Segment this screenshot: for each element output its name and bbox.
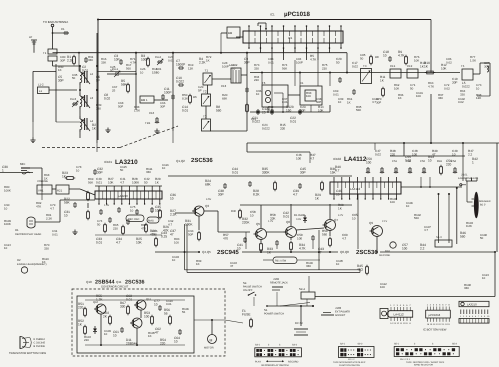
- svg-text:0.02: 0.02: [405, 158, 411, 162]
- svg-text:1: 1: [2, 168, 4, 172]
- svg-text:10: 10: [4, 206, 8, 210]
- svg-text:30P: 30P: [60, 58, 65, 62]
- svg-text:330: 330: [44, 246, 49, 250]
- svg-text:100: 100: [297, 236, 302, 240]
- svg-text:IC101: IC101: [104, 160, 112, 164]
- svg-text:50: 50: [480, 236, 484, 240]
- svg-text:10: 10: [482, 276, 486, 280]
- svg-text:10K: 10K: [394, 86, 399, 90]
- svg-text:B 2SC536: B 2SC536: [34, 345, 46, 348]
- svg-text:SILICONE: SILICONE: [379, 254, 391, 257]
- svg-text:68K: 68K: [222, 96, 227, 100]
- svg-text:560: 560: [460, 234, 466, 238]
- svg-text:EARPHONE JACK: EARPHONE JACK: [458, 177, 479, 180]
- svg-text:TAPE MTR/RADIO MTR SLEEP: TAPE MTR/RADIO MTR SLEEP: [333, 361, 366, 364]
- svg-text:0.022: 0.022: [462, 84, 470, 88]
- svg-text:S4: S4: [243, 281, 247, 285]
- svg-text:10K: 10K: [108, 180, 114, 184]
- svg-text:REC OSC: REC OSC: [128, 218, 140, 221]
- svg-text:Q6: Q6: [286, 220, 290, 224]
- svg-text:CF1: CF1: [390, 64, 396, 68]
- svg-text:30P: 30P: [160, 104, 165, 108]
- svg-text:4.7: 4.7: [372, 100, 376, 104]
- svg-text:30P: 30P: [97, 170, 103, 174]
- svg-text:Q3: Q3: [205, 204, 209, 208]
- svg-text:50: 50: [360, 56, 364, 60]
- svg-text:0.01: 0.01: [290, 119, 296, 123]
- svg-text:J103: J103: [335, 306, 342, 310]
- svg-text:4.7: 4.7: [335, 168, 340, 172]
- svg-text:TO BAR ANTENNA: TO BAR ANTENNA: [43, 20, 68, 24]
- svg-text:330: 330: [146, 170, 151, 174]
- svg-text:50P: 50P: [316, 100, 321, 104]
- svg-text:4.7: 4.7: [120, 180, 125, 184]
- svg-text:SPEAKER: SPEAKER: [479, 200, 491, 203]
- svg-text:100: 100: [390, 200, 395, 204]
- svg-text:1.5V: 1.5V: [104, 204, 109, 207]
- svg-text:4.7K: 4.7K: [130, 60, 136, 64]
- svg-text:BAND SELECTOR: BAND SELECTOR: [414, 364, 433, 367]
- svg-text:L1-2: L1-2: [38, 83, 44, 87]
- svg-text:330: 330: [254, 66, 259, 70]
- svg-text:IC1: IC1: [288, 36, 293, 40]
- svg-text:5P: 5P: [96, 78, 100, 82]
- svg-text:POWER SWITCH: POWER SWITCH: [264, 313, 284, 316]
- svg-text:10: 10: [170, 196, 174, 200]
- svg-text:100K: 100K: [4, 188, 11, 192]
- svg-text:56K: 56K: [356, 108, 361, 112]
- svg-text:S3-4: S3-4: [292, 344, 298, 347]
- svg-text:50: 50: [120, 168, 124, 172]
- svg-text:4.7K: 4.7K: [310, 57, 317, 61]
- svg-text:AT: AT: [29, 35, 33, 39]
- svg-text:56: 56: [182, 310, 186, 314]
- svg-text:Q5: Q5: [256, 222, 260, 226]
- svg-text:100: 100: [412, 152, 417, 156]
- svg-text:R6: R6: [193, 95, 197, 99]
- svg-text:Q9: Q9: [369, 221, 373, 225]
- svg-text:GOVERNOR CIRCUIT: GOVERNOR CIRCUIT: [101, 286, 129, 289]
- svg-text:10: 10: [250, 213, 254, 217]
- svg-text:10: 10: [256, 92, 260, 96]
- svg-text:0.6V: 0.6V: [296, 218, 301, 221]
- svg-text:30P: 30P: [484, 64, 489, 68]
- svg-text:FUSE: FUSE: [242, 312, 251, 316]
- svg-text:S1: S1: [264, 308, 268, 312]
- svg-text:330: 330: [438, 96, 443, 100]
- svg-text:4.7: 4.7: [310, 156, 315, 160]
- svg-text:10: 10: [104, 332, 108, 336]
- svg-text:FUNCTION SWITCH: FUNCTION SWITCH: [339, 364, 360, 367]
- svg-text:10: 10: [338, 100, 342, 104]
- svg-text:J102: J102: [273, 277, 280, 281]
- svg-text:H2: H2: [17, 258, 21, 262]
- svg-text:0.022: 0.022: [262, 126, 270, 130]
- svg-text:47: 47: [230, 264, 234, 268]
- svg-text:0.02: 0.02: [352, 64, 358, 68]
- svg-text:µPC1018: µPC1018: [284, 11, 310, 18]
- svg-text:10: 10: [113, 333, 117, 337]
- svg-text:C4-3: C4-3: [70, 97, 77, 101]
- svg-text:56K: 56K: [88, 180, 93, 184]
- svg-text:SOCKET: SOCKET: [335, 314, 346, 317]
- svg-text:45Ω: 45Ω: [357, 267, 364, 271]
- svg-text:10: 10: [237, 246, 241, 250]
- svg-text:VR1: VR1: [38, 189, 44, 193]
- svg-text:IC102: IC102: [333, 157, 341, 161]
- svg-text:C1: C1: [61, 27, 65, 31]
- svg-text:0.022: 0.022: [252, 119, 260, 123]
- svg-text:56K: 56K: [282, 66, 287, 70]
- svg-text:50P: 50P: [118, 104, 123, 108]
- svg-text:10: 10: [476, 86, 480, 90]
- svg-text:4.7K: 4.7K: [398, 53, 405, 57]
- svg-text:330: 330: [464, 286, 469, 290]
- svg-text:10: 10: [336, 262, 340, 266]
- svg-text:BIAS: BIAS: [148, 220, 154, 223]
- svg-text:Q4,Q5: Q4,Q5: [202, 250, 211, 254]
- svg-text:0.02: 0.02: [375, 152, 381, 156]
- svg-text:220: 220: [113, 226, 118, 230]
- svg-text:2.1V: 2.1V: [382, 220, 387, 223]
- svg-text:10: 10: [64, 213, 68, 217]
- svg-text:2.2K: 2.2K: [67, 58, 74, 62]
- svg-text:S2-4: S2-4: [299, 287, 305, 291]
- svg-text:C51: C51: [392, 160, 397, 163]
- svg-text:0.01: 0.01: [182, 108, 188, 112]
- svg-text:10: 10: [172, 258, 176, 262]
- svg-text:R30: R30: [231, 210, 236, 213]
- svg-text:S2-1 2: S2-1 2: [348, 358, 355, 361]
- svg-text:CF2: CF2: [407, 64, 413, 68]
- svg-text:47: 47: [170, 232, 174, 236]
- svg-text:J-101: J-101: [461, 174, 468, 177]
- svg-text:10: 10: [162, 166, 166, 170]
- svg-text:220: 220: [78, 305, 84, 309]
- svg-text:S2-3: S2-3: [436, 236, 442, 239]
- svg-text:2.2K: 2.2K: [46, 216, 52, 220]
- svg-text:10K: 10K: [414, 58, 419, 62]
- svg-text:T1: T1: [205, 69, 209, 73]
- svg-text:10: 10: [154, 302, 158, 306]
- svg-text:10P: 10P: [114, 57, 120, 61]
- svg-text:220K: 220K: [242, 220, 250, 224]
- svg-text:12K: 12K: [476, 96, 481, 100]
- svg-text:560: 560: [126, 66, 131, 70]
- svg-text:68K: 68K: [205, 182, 212, 186]
- svg-text:4.7: 4.7: [116, 240, 121, 244]
- svg-text:30P: 30P: [452, 80, 457, 84]
- svg-text:BM 1: BM 1: [141, 98, 148, 102]
- svg-text:S5-1: S5-1: [394, 343, 400, 346]
- svg-text:RECORD: RECORD: [288, 360, 299, 363]
- svg-text:330: 330: [120, 304, 126, 308]
- svg-text:50: 50: [97, 222, 101, 226]
- svg-text:C53: C53: [420, 160, 425, 163]
- svg-text:Q10: Q10: [86, 280, 92, 284]
- svg-text:0.02: 0.02: [444, 86, 450, 90]
- svg-text:1.5K: 1.5K: [134, 108, 140, 112]
- svg-text:0.01: 0.01: [268, 60, 274, 64]
- svg-text:100: 100: [174, 240, 179, 244]
- svg-text:4.7: 4.7: [424, 228, 428, 232]
- svg-text:T1: T1: [43, 51, 47, 55]
- svg-text:T5: T5: [461, 64, 465, 68]
- svg-text:560: 560: [322, 232, 327, 236]
- svg-text:1.2K: 1.2K: [96, 297, 103, 301]
- svg-text:4.7: 4.7: [342, 236, 347, 240]
- svg-text:100K: 100K: [141, 57, 149, 61]
- svg-text:0.01: 0.01: [96, 240, 102, 244]
- svg-text:100: 100: [402, 246, 408, 250]
- svg-text:560: 560: [216, 108, 222, 112]
- svg-text:Q11: Q11: [146, 298, 151, 301]
- svg-text:10K: 10K: [441, 66, 447, 70]
- svg-text:L1: L1: [39, 89, 43, 93]
- svg-text:1.5K: 1.5K: [470, 58, 476, 62]
- svg-text:220: 220: [254, 78, 259, 82]
- svg-text:50: 50: [144, 180, 148, 184]
- svg-text:1K: 1K: [347, 100, 351, 104]
- svg-text:Q11: Q11: [116, 280, 122, 284]
- svg-text:25: 25: [262, 110, 266, 114]
- svg-text:8Ω 2": 8Ω 2": [480, 204, 486, 207]
- svg-text:100: 100: [366, 160, 372, 164]
- svg-text:S2-1: S2-1: [340, 343, 346, 346]
- svg-text:Q6,Q8: Q6,Q8: [340, 250, 349, 254]
- svg-text:0.022: 0.022: [176, 79, 184, 83]
- svg-text:330: 330: [280, 126, 285, 130]
- svg-text:4.2V: 4.2V: [338, 214, 343, 217]
- svg-text:1500P: 1500P: [176, 62, 185, 66]
- svg-text:330: 330: [96, 106, 101, 110]
- svg-text:BM: BM: [228, 31, 233, 35]
- svg-text:30P: 30P: [244, 60, 250, 64]
- svg-text:T6: T6: [262, 81, 266, 85]
- svg-text:X1: X1: [300, 81, 304, 85]
- svg-text:100: 100: [144, 314, 150, 318]
- svg-text:4.7: 4.7: [50, 206, 54, 210]
- svg-text:LA3210: LA3210: [118, 194, 128, 198]
- svg-text:8.2K: 8.2K: [466, 224, 472, 228]
- svg-text:0.01: 0.01: [283, 214, 289, 218]
- svg-text:H1: H1: [15, 228, 19, 232]
- svg-text:10K: 10K: [318, 108, 324, 112]
- svg-text:0.01: 0.01: [232, 170, 238, 174]
- svg-text:220: 220: [390, 152, 395, 156]
- svg-text:8.2K: 8.2K: [182, 96, 188, 100]
- svg-text:1K: 1K: [196, 262, 200, 266]
- svg-text:33K: 33K: [101, 60, 106, 64]
- svg-text:150: 150: [286, 108, 292, 112]
- svg-text:MOTOR: MOTOR: [204, 347, 214, 350]
- svg-text:10: 10: [4, 246, 8, 250]
- svg-text:DC 6V: DC 6V: [295, 322, 303, 325]
- svg-text:25: 25: [112, 88, 116, 92]
- svg-text:0.01: 0.01: [126, 297, 132, 301]
- svg-text:8.2K: 8.2K: [253, 192, 260, 196]
- svg-text:10: 10: [76, 168, 80, 172]
- svg-text:56K: 56K: [64, 200, 71, 204]
- svg-text:100: 100: [306, 94, 311, 98]
- svg-text:100K: 100K: [185, 222, 193, 226]
- svg-text:1K: 1K: [42, 260, 46, 264]
- svg-text:2SC945: 2SC945: [217, 249, 239, 256]
- svg-text:2.2K: 2.2K: [170, 212, 177, 216]
- svg-text:R8: R8: [375, 55, 379, 59]
- svg-text:T2: T2: [203, 90, 207, 94]
- svg-text:D1 OA90: D1 OA90: [294, 214, 306, 217]
- svg-text:2SC536: 2SC536: [356, 249, 378, 256]
- svg-text:1K: 1K: [148, 334, 152, 338]
- svg-text:L2: L2: [90, 72, 94, 76]
- svg-text:100: 100: [296, 156, 301, 160]
- svg-text:S5-1 2 3 1: S5-1 2 3 1: [400, 358, 411, 361]
- svg-text:100K: 100K: [4, 222, 11, 226]
- svg-text:MIC: MIC: [20, 162, 25, 166]
- svg-text:47K: 47K: [36, 204, 41, 208]
- svg-text:1: 1: [472, 160, 474, 164]
- svg-text:10: 10: [406, 204, 410, 208]
- svg-text:1K: 1K: [44, 176, 48, 180]
- svg-text:TR1: TR1: [145, 121, 151, 125]
- svg-text:S2-2: S2-2: [358, 343, 364, 346]
- svg-text:0.01: 0.01: [52, 232, 58, 236]
- svg-text:10: 10: [428, 158, 432, 162]
- svg-text:10: 10: [174, 339, 178, 343]
- svg-text:4.7: 4.7: [293, 192, 298, 196]
- svg-text:10: 10: [130, 208, 134, 212]
- svg-text:560: 560: [414, 216, 419, 220]
- svg-text:1K: 1K: [58, 68, 62, 72]
- svg-text:Q7: Q7: [334, 218, 338, 222]
- svg-text:RECORD/PLAY HEAD: RECORD/PLAY HEAD: [15, 233, 41, 236]
- svg-text:LA3210: LA3210: [467, 303, 477, 307]
- svg-text:D10: D10: [385, 250, 390, 253]
- svg-text:220: 220: [446, 162, 452, 166]
- svg-text:S3-1: S3-1: [255, 344, 261, 347]
- svg-text:12K: 12K: [188, 66, 193, 70]
- svg-text:LA4112: LA4112: [344, 156, 367, 163]
- svg-text:4.7K: 4.7K: [299, 246, 306, 250]
- svg-text:100P: 100P: [164, 90, 171, 94]
- svg-text:10: 10: [452, 152, 456, 156]
- svg-text:C4-2: C4-2: [155, 55, 162, 59]
- svg-text:100P: 100P: [296, 60, 303, 64]
- svg-text:C13: C13: [221, 84, 227, 88]
- svg-text:ON-OFF: ON-OFF: [243, 289, 253, 292]
- svg-text:R41: R41: [437, 160, 442, 163]
- svg-text:220: 220: [322, 66, 327, 70]
- svg-text:100: 100: [380, 285, 385, 289]
- svg-text:50: 50: [410, 86, 414, 90]
- svg-text:C 2SC945: C 2SC945: [34, 342, 46, 345]
- svg-text:100K: 100K: [132, 180, 140, 184]
- svg-text:47K: 47K: [141, 226, 146, 230]
- svg-text:0.02: 0.02: [104, 96, 110, 100]
- svg-text:M: M: [210, 339, 213, 343]
- svg-text:0.01: 0.01: [96, 180, 102, 184]
- svg-text:VOLUME: VOLUME: [37, 180, 48, 183]
- svg-text:100P: 100P: [222, 64, 229, 68]
- svg-text:330K: 330K: [262, 170, 270, 174]
- svg-text:2.2: 2.2: [468, 152, 473, 156]
- svg-text:10: 10: [383, 53, 387, 57]
- svg-text:30P: 30P: [58, 78, 64, 82]
- svg-text:0.01: 0.01: [333, 92, 339, 96]
- svg-text:C16: C16: [149, 111, 155, 115]
- svg-text:100: 100: [152, 232, 157, 236]
- svg-text:50P: 50P: [188, 232, 193, 236]
- svg-text:10: 10: [140, 70, 144, 74]
- svg-text:E 2SB544: E 2SB544: [34, 338, 46, 341]
- svg-text:TRANSISTOR BOTTOM VIEW: TRANSISTOR BOTTOM VIEW: [9, 352, 47, 355]
- svg-text:0.25: 0.25: [161, 234, 167, 238]
- svg-text:REMOTE JACK: REMOTE JACK: [270, 282, 288, 285]
- svg-text:0.01: 0.01: [168, 58, 174, 62]
- svg-text:47: 47: [432, 152, 436, 156]
- svg-text:T4: T4: [363, 64, 367, 68]
- svg-text:1.2V: 1.2V: [268, 220, 273, 223]
- svg-text:L3: L3: [90, 96, 94, 100]
- svg-text:470: 470: [223, 236, 228, 240]
- svg-text:µPC1018: µPC1018: [429, 313, 441, 317]
- svg-text:220: 220: [84, 338, 89, 342]
- svg-text:LA4112: LA4112: [394, 313, 404, 317]
- svg-text:0.01: 0.01: [166, 302, 172, 306]
- svg-text:TAPE: RECORD TAPE / RADIO TAPE: TAPE: RECORD TAPE / RADIO TAPE: [406, 361, 445, 364]
- svg-text:50: 50: [72, 76, 76, 80]
- svg-text:PLAY: PLAY: [255, 360, 261, 363]
- svg-text:0.02: 0.02: [446, 60, 452, 64]
- svg-text:330: 330: [88, 58, 93, 62]
- svg-text:4.7K: 4.7K: [428, 84, 434, 88]
- svg-text:S5-2: S5-2: [452, 343, 458, 346]
- svg-text:50: 50: [336, 60, 340, 64]
- svg-text:LA4112: LA4112: [350, 187, 360, 191]
- svg-text:56: 56: [164, 311, 168, 315]
- svg-text:30P: 30P: [218, 192, 224, 196]
- svg-text:4.5V: 4.5V: [206, 198, 211, 201]
- svg-text:IC BOTTOM VIEW: IC BOTTOM VIEW: [423, 328, 447, 332]
- svg-text:10: 10: [352, 216, 356, 220]
- svg-text:IC1: IC1: [270, 13, 275, 17]
- svg-text:50: 50: [110, 68, 114, 72]
- svg-text:56K: 56K: [121, 82, 128, 86]
- svg-text:4.7: 4.7: [168, 222, 172, 226]
- svg-text:10K: 10K: [136, 240, 143, 244]
- svg-text:0.02: 0.02: [458, 100, 464, 104]
- svg-text:1K: 1K: [398, 96, 402, 100]
- svg-text:5P: 5P: [198, 88, 202, 92]
- svg-text:50: 50: [156, 70, 160, 74]
- svg-text:Q1,Q2: Q1,Q2: [176, 159, 185, 163]
- svg-text:R61 0.5W: R61 0.5W: [275, 260, 287, 263]
- svg-text:330: 330: [306, 264, 311, 268]
- svg-text:R21: R21: [57, 189, 63, 193]
- svg-text:100: 100: [416, 94, 421, 98]
- svg-text:2SC536: 2SC536: [191, 157, 213, 164]
- svg-text:L4: L4: [90, 119, 94, 123]
- svg-text:10: 10: [232, 66, 236, 70]
- svg-text:2.2: 2.2: [420, 246, 425, 250]
- svg-text:30P: 30P: [300, 170, 306, 174]
- svg-text:47: 47: [155, 330, 159, 334]
- svg-text:330: 330: [460, 92, 465, 96]
- svg-text:1K: 1K: [206, 58, 210, 62]
